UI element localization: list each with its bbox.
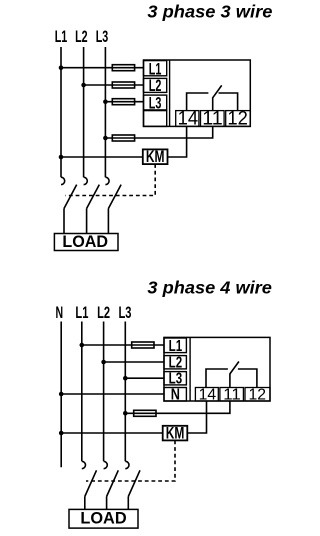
dashed mechanical link KM to contacts (bottom) bbox=[86, 440, 175, 481]
svg-text:12: 12 bbox=[249, 386, 267, 403]
svg-text:11: 11 bbox=[223, 386, 241, 403]
wire: L3 to load (bottom) bbox=[127, 497, 129, 510]
wire: L3 to relay terminal L3 (bottom) bbox=[125, 377, 164, 379]
wire: L2 to relay terminal L2 bbox=[84, 84, 144, 86]
node: junction L3 to relay (bottom) bbox=[123, 376, 128, 381]
terminal 14 of relay U2 bbox=[195, 388, 218, 402]
node: junction L1 to KM coil bbox=[59, 155, 64, 160]
svg-text:L3: L3 bbox=[96, 28, 109, 46]
svg-text:11: 11 bbox=[202, 108, 223, 129]
contact blade on L1 bbox=[64, 185, 77, 209]
svg-text:L3: L3 bbox=[119, 304, 132, 322]
terminal L2 of relay bbox=[144, 78, 167, 92]
contact hook on L3 bbox=[105, 177, 109, 184]
terminal L3 of relay bbox=[144, 95, 167, 110]
wire: L2 to load bbox=[86, 209, 88, 234]
node: junction L2 to relay (bottom) bbox=[101, 360, 106, 365]
contact blade on L3 bbox=[108, 185, 121, 209]
node: junction L3 to contact supply bbox=[103, 136, 108, 141]
wire: supply line L1 vertical bbox=[60, 47, 62, 177]
contact blade on L3 (bottom) bbox=[128, 470, 140, 496]
wire: N to relay terminal N bbox=[61, 393, 164, 395]
svg-text:3 phase 4 wire: 3 phase 4 wire bbox=[147, 278, 272, 298]
terminal L1 of relay bbox=[144, 61, 167, 76]
wire: N to KM coil bbox=[61, 432, 163, 434]
contactor coil KM bbox=[143, 149, 168, 164]
node: junction L1 to relay (bottom) bbox=[80, 343, 85, 348]
node: junction L2 to relay bbox=[81, 83, 86, 88]
wire: supply line L2 vertical (bottom) bbox=[103, 322, 105, 462]
svg-text:L2: L2 bbox=[169, 355, 183, 372]
fuse F5 bbox=[132, 342, 154, 348]
terminal 11 of relay U2 bbox=[220, 388, 244, 402]
wire: supply line L3 vertical (bottom) bbox=[124, 322, 126, 462]
svg-text:12: 12 bbox=[227, 108, 248, 129]
svg-text:14: 14 bbox=[178, 108, 199, 129]
wire: supply line L2 vertical bbox=[83, 47, 85, 177]
relay U2 internal divider bbox=[189, 337, 191, 401]
svg-text:L3: L3 bbox=[169, 371, 183, 388]
contact blade on L2 (bottom) bbox=[107, 470, 119, 496]
svg-text:L1: L1 bbox=[169, 338, 183, 355]
contact hook on L1 bbox=[61, 177, 65, 184]
wire: L3 to relay terminal 11 bbox=[105, 126, 212, 138]
contactor coil KM (bottom) bbox=[163, 426, 188, 441]
svg-text:14: 14 bbox=[199, 386, 217, 403]
contact blade on L2 bbox=[87, 185, 100, 209]
wire: L1 to load (bottom) bbox=[84, 497, 86, 510]
terminal N of relay U2 bbox=[164, 388, 186, 402]
contact blade on L1 (bottom) bbox=[85, 470, 97, 496]
wire: L3 to relay terminal L3 bbox=[105, 101, 143, 103]
terminal blank cell of relay bbox=[144, 111, 167, 127]
relay U1 internal divider bbox=[169, 60, 171, 126]
fuse F3 bbox=[112, 99, 134, 105]
wire: L1 to relay terminal L1 (bottom) bbox=[82, 344, 164, 346]
terminal L3 of relay U2 bbox=[164, 372, 186, 385]
contact hook on L2 bbox=[84, 177, 88, 184]
wire: L1 to relay terminal L1 bbox=[61, 67, 144, 69]
contact hook on L3 (bottom) bbox=[125, 461, 129, 468]
svg-text:L2: L2 bbox=[149, 76, 162, 95]
terminal 11 of relay bbox=[201, 111, 225, 127]
terminal L1 of relay U2 bbox=[164, 338, 186, 353]
relay contact: blade (U2) bbox=[230, 362, 239, 374]
relay U1 outline bbox=[144, 60, 251, 126]
svg-text:KM: KM bbox=[166, 424, 185, 442]
svg-text:L2: L2 bbox=[97, 304, 110, 322]
wire: KM coil to terminal 14 (bottom) bbox=[187, 401, 206, 433]
wire: L2 to relay terminal L2 (bottom) bbox=[104, 361, 164, 363]
relay contact: lead to 12 (U2) bbox=[238, 369, 257, 388]
load box (bottom) bbox=[69, 509, 138, 528]
svg-text:KM: KM bbox=[146, 148, 165, 166]
relay contact: lead to 12 bbox=[219, 93, 238, 111]
svg-text:N: N bbox=[171, 387, 180, 404]
svg-text:L1: L1 bbox=[55, 28, 68, 46]
relay contact: lead to 14 (U2) bbox=[206, 369, 228, 388]
wire: supply line L3 vertical bbox=[104, 47, 106, 177]
relay contact: blade bbox=[213, 85, 222, 97]
svg-text:LOAD: LOAD bbox=[62, 233, 108, 251]
node: junction L3 to relay bbox=[103, 99, 108, 104]
node: junction N to KM coil bbox=[59, 431, 64, 436]
wire: L2 to load (bottom) bbox=[106, 497, 108, 510]
terminal 12 of relay bbox=[226, 111, 251, 127]
relay U2 outline bbox=[164, 337, 270, 401]
wire: L3 to load bbox=[107, 209, 109, 234]
wire: supply line L1 vertical (bottom) bbox=[81, 322, 83, 462]
svg-text:L1: L1 bbox=[75, 304, 88, 322]
contact hook on L2 (bottom) bbox=[104, 461, 108, 468]
relay contact: common lead 11 bbox=[212, 97, 214, 110]
svg-text:3 phase 3 wire: 3 phase 3 wire bbox=[147, 2, 272, 22]
dashed mechanical link KM to contacts bbox=[66, 164, 156, 195]
node: junction N to relay bbox=[59, 392, 64, 397]
wire: supply line N vertical bbox=[60, 322, 62, 468]
terminal 12 of relay U2 bbox=[245, 388, 270, 402]
svg-text:N: N bbox=[56, 304, 64, 322]
wire: L1 to KM coil bbox=[61, 156, 143, 158]
svg-text:L3: L3 bbox=[149, 94, 162, 113]
contact hook on L1 (bottom) bbox=[82, 461, 86, 468]
wire: KM coil to terminal 14 bbox=[168, 126, 187, 157]
load box (top) bbox=[54, 234, 118, 251]
svg-text:L2: L2 bbox=[75, 28, 88, 46]
wire: L3 to relay terminal 11 (bottom) bbox=[125, 401, 230, 413]
fuse F4 bbox=[112, 135, 134, 141]
relay contact: common lead 11 (U2) bbox=[229, 374, 231, 388]
wire: L1 to load bbox=[63, 209, 65, 234]
fuse F2 bbox=[112, 82, 134, 88]
node: junction L3 to contact supply (bottom) bbox=[123, 411, 128, 416]
relay contact: lead to 14 bbox=[187, 93, 209, 111]
node: junction L1 to relay bbox=[59, 65, 64, 70]
fuse F6 bbox=[134, 410, 156, 416]
terminal L2 of relay U2 bbox=[164, 356, 186, 369]
svg-text:LOAD: LOAD bbox=[80, 510, 126, 528]
fuse F1 bbox=[112, 65, 134, 71]
terminal 14 of relay bbox=[176, 111, 199, 127]
